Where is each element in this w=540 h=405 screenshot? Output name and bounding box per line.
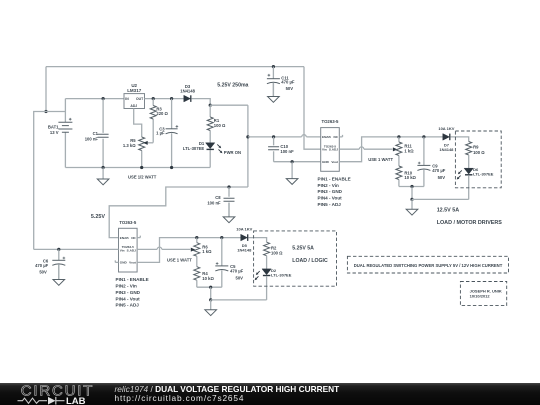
wire NC stub	[339, 135, 342, 137]
label C5 value	[230, 264, 244, 281]
junction gnd rail at R5	[140, 166, 143, 169]
svg-text:470 µF: 470 µF	[432, 168, 446, 173]
svg-text:100 Ω: 100 Ω	[271, 251, 283, 256]
label U1 TO263-5	[322, 119, 339, 124]
diode D5	[241, 234, 248, 241]
wire Vout riser to 12V rail	[339, 137, 443, 162]
junction enable tap	[246, 135, 249, 138]
label D1 value	[183, 141, 205, 151]
label C11 value	[281, 75, 295, 91]
svg-text:PIN2 - Vin: PIN2 - Vin	[318, 183, 340, 188]
wire D7 cathode into load box	[451, 137, 469, 142]
svg-text:ENAB: ENAB	[120, 236, 130, 240]
wire U3 Vout riser to 5V rail	[137, 238, 241, 263]
svg-text:1N4148: 1N4148	[180, 89, 195, 94]
label PWR ON	[224, 150, 241, 155]
svg-text:Vout: Vout	[331, 160, 338, 164]
svg-text:100 nF: 100 nF	[85, 136, 99, 141]
note box description	[347, 256, 508, 273]
resistor R3	[150, 99, 156, 143]
capacitor C8	[224, 187, 235, 217]
svg-text:100 nF: 100 nF	[207, 200, 221, 205]
resistor R2	[264, 242, 270, 269]
potentiometer R6	[194, 238, 200, 267]
label BAT1 value	[48, 124, 59, 135]
load box 12.5V dashed	[455, 131, 501, 188]
wire bottom link drop 2	[210, 287, 212, 300]
potentiometer R5	[139, 137, 154, 168]
svg-text:USE 1/2 WATT: USE 1/2 WATT	[128, 175, 157, 180]
junction C9 top	[422, 135, 425, 138]
svg-text:TO263-5: TO263-5	[119, 220, 136, 225]
wire R10 C9 bottom link	[399, 186, 424, 188]
label R11 value	[404, 144, 414, 154]
wire U2 output	[145, 98, 184, 100]
svg-text:1N4148: 1N4148	[237, 248, 252, 253]
svg-text:USE 1 WATT: USE 1 WATT	[167, 258, 192, 263]
svg-text:PIN4 - Vout: PIN4 - Vout	[116, 296, 141, 301]
label 5.25V 5A	[292, 246, 314, 252]
junction 5V return	[209, 298, 212, 301]
junction C10 top	[272, 135, 275, 138]
wire S.ADJ to R11 wiper	[339, 148, 392, 150]
wire D3 cathode to node	[191, 99, 210, 106]
capacitor C11	[267, 67, 280, 97]
svg-text:470 µF: 470 µF	[230, 268, 244, 273]
junction 5.25V node	[209, 104, 212, 107]
svg-text:12.5V 5A: 12.5V 5A	[437, 208, 460, 214]
pot wiper arrow R11	[393, 147, 398, 151]
label 10A 1KV bottom	[236, 227, 252, 232]
label R5 value	[123, 138, 136, 148]
resistor R10	[396, 166, 402, 187]
svg-text:PIN5 - ADJ: PIN5 - ADJ	[318, 202, 342, 207]
label R9 value	[473, 145, 485, 155]
svg-text:ADJ: ADJ	[130, 104, 137, 108]
load box 5.25V dashed	[254, 231, 337, 286]
junction C11 top	[272, 65, 275, 68]
label C10 value	[280, 144, 294, 154]
svg-text:BAT1: BAT1	[48, 124, 59, 129]
svg-text:NC: NC	[131, 236, 136, 240]
capacitor C1	[98, 99, 109, 168]
wire hop over U3 Vout riser	[157, 247, 162, 249]
ground at C8	[223, 203, 235, 223]
node 5.25V label	[91, 214, 105, 220]
wire top 13V rail	[46, 66, 304, 68]
label R10 value	[404, 170, 416, 180]
label C1 value	[85, 131, 99, 141]
resistor R1	[207, 105, 213, 143]
svg-text:Vin: Vin	[120, 248, 125, 252]
svg-text:PIN5 - ADJ: PIN5 - ADJ	[116, 303, 140, 308]
potentiometer R11	[396, 137, 402, 166]
capacitor C6	[52, 249, 65, 279]
svg-text:470 µF: 470 µF	[281, 80, 295, 85]
note box author	[460, 282, 506, 306]
label 5.25V 250ma	[217, 83, 248, 89]
label R1 value	[214, 118, 226, 128]
junction C6 top	[57, 248, 60, 251]
svg-text:Vin: Vin	[322, 148, 327, 152]
junction gnd rail at C1	[102, 166, 105, 169]
junction R6 top	[195, 236, 198, 239]
label R3 value	[156, 106, 168, 116]
svg-text:50V: 50V	[438, 175, 446, 180]
junction 12V return	[410, 198, 413, 201]
ground at C6	[53, 265, 65, 286]
svg-text:GND: GND	[120, 261, 128, 265]
regulator U1 TO263-5	[321, 128, 340, 172]
label R4 value	[202, 271, 214, 281]
svg-text:1.3 kΩ: 1.3 kΩ	[123, 143, 136, 148]
svg-text:1 kΩ: 1 kΩ	[404, 148, 414, 153]
battery BAT1	[58, 99, 72, 168]
wire 5.25V bus left run	[109, 187, 248, 238]
svg-text:10 kΩ: 10 kΩ	[202, 276, 214, 281]
svg-text:100 nF: 100 nF	[280, 149, 294, 154]
svg-text:TO263-5: TO263-5	[322, 119, 339, 124]
label C6 value	[35, 259, 49, 275]
junction bottom link 2	[209, 286, 212, 289]
ground at U1	[286, 162, 298, 185]
svg-text:50V: 50V	[236, 276, 244, 281]
svg-text:LTL-307EE: LTL-307EE	[183, 146, 205, 151]
svg-text:C1: C1	[93, 131, 99, 136]
svg-text:LOAD / LOGIC: LOAD / LOGIC	[292, 258, 328, 264]
wire U3 NC stub	[137, 236, 140, 238]
wire Vin rail from battery	[34, 248, 119, 250]
svg-text:5.25V: 5.25V	[91, 214, 105, 220]
wire U3 S.ADJ to R6 wiper	[137, 248, 190, 250]
svg-text:PIN3 - GND: PIN3 - GND	[318, 189, 343, 194]
label C3 value	[156, 127, 165, 136]
label C8 value	[207, 195, 221, 205]
svg-text:10/10/2012: 10/10/2012	[470, 293, 491, 298]
svg-text:LAB: LAB	[66, 396, 86, 405]
ground of 5V stage	[205, 300, 217, 316]
wire U1 GND to C10 bottom	[274, 161, 321, 163]
junction gnd tap U1	[291, 160, 294, 163]
junction R3 top	[152, 97, 155, 100]
svg-text:PIN4 - Vout: PIN4 - Vout	[318, 196, 343, 201]
svg-text:PWR ON: PWR ON	[224, 150, 241, 155]
label USE 1 WATT top	[368, 157, 393, 162]
wire R4 C5 bottom link	[197, 286, 222, 288]
junction C3 top	[170, 97, 173, 100]
svg-text:PIN3 - GND: PIN3 - GND	[116, 290, 141, 295]
wire enable to U1 ENAB	[248, 136, 321, 138]
svg-text:220 Ω: 220 Ω	[156, 111, 168, 116]
wire ADJ to R5 top	[134, 109, 142, 138]
wire hop over Vout riser	[359, 147, 364, 149]
wire 12V return rail	[412, 198, 469, 200]
capacitor C9	[417, 137, 430, 187]
wire LM317 input rail	[65, 98, 124, 100]
regulator U3 TO263-5	[119, 228, 138, 272]
junction C5 top	[220, 236, 223, 239]
svg-text:50V: 50V	[286, 86, 294, 91]
svg-text:OUT: OUT	[136, 97, 144, 101]
svg-text:S.ADJ: S.ADJ	[127, 248, 136, 252]
svg-text:Vout: Vout	[129, 261, 136, 265]
wire 5V return rail	[211, 299, 267, 301]
svg-text:ENAB: ENAB	[322, 135, 332, 139]
LED D6	[457, 168, 474, 199]
diode D7	[443, 134, 450, 141]
svg-text:S.ADJ: S.ADJ	[329, 148, 338, 152]
label C9 value	[432, 164, 446, 181]
wire ground rail of LM317 stage	[65, 167, 210, 169]
label D2 value	[271, 268, 292, 278]
ground of LM317 stage	[97, 168, 109, 185]
junction bottom link	[410, 185, 413, 188]
diode D3	[184, 95, 191, 102]
svg-text:10A 1KV: 10A 1KV	[236, 227, 252, 232]
svg-text:LOAD / MOTOR DRIVERS: LOAD / MOTOR DRIVERS	[437, 220, 503, 226]
wire 5.25V across	[210, 104, 248, 106]
label USE 1 WATT bottom	[167, 258, 192, 263]
wire battery feed down	[45, 67, 47, 112]
label LOAD / LOGIC	[292, 258, 328, 264]
junction gnd rail at C3	[170, 166, 173, 169]
wire hop over Vin riser	[302, 135, 307, 137]
wire to far-left 13V drop	[34, 112, 46, 250]
resistor R9	[466, 142, 472, 169]
svg-text:IN: IN	[125, 97, 129, 101]
LED D1	[206, 143, 223, 168]
svg-text:LM317: LM317	[127, 88, 142, 93]
pin list U3	[116, 277, 149, 308]
svg-text:1 kΩ: 1 kΩ	[202, 249, 212, 254]
junction C1 top	[102, 97, 105, 100]
CircuitLab logo diode symbol	[48, 397, 56, 405]
svg-text:1N4148: 1N4148	[439, 147, 454, 152]
label R6 value	[202, 244, 212, 254]
wire D5 cathode into load box	[249, 238, 267, 243]
svg-text:GND: GND	[322, 160, 330, 164]
svg-text:PIN1 - ENABLE: PIN1 - ENABLE	[116, 277, 149, 282]
svg-text:PIN2 - Vin: PIN2 - Vin	[116, 284, 138, 289]
svg-text:10A 1KV: 10A 1KV	[438, 126, 454, 131]
capacitor C10	[268, 137, 279, 162]
svg-text:DUAL REGULATED SWITCHING POWER: DUAL REGULATED SWITCHING POWER SUPPLY 5V…	[354, 263, 503, 268]
capacitor C3	[166, 99, 179, 168]
LED D2	[255, 269, 272, 300]
junction node battery top tee	[44, 110, 47, 113]
svg-text:1 µF: 1 µF	[156, 131, 165, 136]
wire U3 GND stub	[115, 260, 118, 262]
junction R11 top	[397, 135, 400, 138]
capacitor C5	[215, 238, 228, 288]
resistor R4	[194, 267, 200, 288]
wire riser from top rail to Vin of U1	[304, 67, 321, 150]
pot wiper arrow R6	[191, 248, 196, 252]
svg-text:50V: 50V	[39, 269, 47, 274]
wire bottom link drop	[411, 187, 413, 200]
label USE 1/2 WATT	[128, 175, 157, 180]
ground of 12V stage	[406, 199, 418, 215]
wire 5.25V drop to enable bus	[247, 105, 249, 187]
svg-text:NC: NC	[334, 135, 339, 139]
svg-text:10 kΩ: 10 kΩ	[404, 175, 416, 180]
CircuitLab logo resistor symbol	[18, 398, 48, 403]
label D3 value	[180, 84, 195, 94]
wire junction to battery	[46, 111, 65, 113]
svg-text:5.25V 5A: 5.25V 5A	[292, 246, 314, 252]
label D7 value	[439, 142, 454, 152]
label D5 value	[237, 243, 252, 253]
label LOAD / MOTOR DRIVERS	[437, 220, 503, 226]
svg-text:LTL-307EE: LTL-307EE	[271, 272, 292, 277]
label U3 TO263-5	[119, 220, 136, 225]
label 10A 1KV top	[438, 126, 454, 131]
svg-text:http://circuitlab.com/c7s2654: http://circuitlab.com/c7s2654	[115, 393, 245, 403]
label U2 LM317	[127, 83, 142, 93]
op-amp U2 LM317 regulator	[124, 94, 145, 109]
junction C8 top	[227, 185, 230, 188]
label 12.5V 5A	[437, 208, 460, 214]
svg-text:USE 1 WATT: USE 1 WATT	[368, 157, 393, 162]
label R2 value	[271, 245, 283, 255]
pin list U1	[318, 176, 351, 207]
svg-text:13 V: 13 V	[50, 130, 59, 135]
svg-text:5.25V 250ma: 5.25V 250ma	[217, 83, 248, 89]
label D6 value	[473, 167, 494, 177]
ground at C11	[268, 83, 280, 103]
svg-text:PIN1 - ENABLE: PIN1 - ENABLE	[318, 176, 351, 181]
svg-text:LTL-307EE: LTL-307EE	[473, 172, 494, 177]
svg-text:100 Ω: 100 Ω	[214, 123, 226, 128]
svg-text:100 Ω: 100 Ω	[473, 150, 485, 155]
svg-text:470 µF: 470 µF	[35, 263, 49, 268]
